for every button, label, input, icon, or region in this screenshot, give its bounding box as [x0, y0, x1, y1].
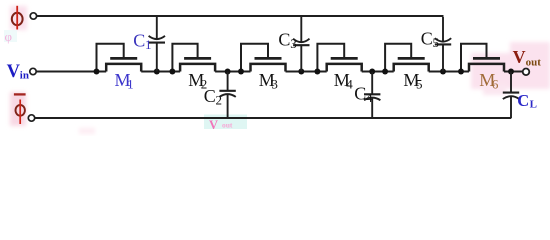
svg-text:L: L: [530, 99, 537, 111]
wire phi top rail: [37, 15, 444, 17]
junction node M2 drain: [169, 69, 175, 75]
svg-text:1: 1: [145, 37, 152, 52]
label C4: [354, 84, 373, 105]
svg-text:C: C: [204, 86, 216, 106]
transistor M4 (diode-connected NMOS): [317, 44, 361, 72]
terminal phi-bar: [28, 115, 34, 121]
svg-text:3: 3: [271, 76, 278, 91]
label M3: [259, 70, 278, 91]
label C1: [133, 30, 151, 51]
transistor M1 (diode-connected NMOS): [97, 44, 142, 72]
junction node C1: [154, 69, 160, 75]
junction node M5 drain: [382, 69, 388, 75]
label M4: [334, 70, 354, 91]
label C5: [421, 28, 439, 49]
junction node C2: [225, 69, 231, 75]
junction node C5: [440, 69, 446, 75]
junction node M4 drain: [314, 69, 320, 75]
wire main rail M5 to M6: [429, 71, 469, 73]
transistor M5 (diode-connected NMOS): [385, 44, 429, 72]
transistor M6 (diode-connected NMOS): [461, 44, 504, 72]
svg-text:C: C: [421, 28, 433, 48]
junction node M6 drain: [458, 69, 464, 75]
label Vout: [513, 47, 542, 69]
svg-text:5: 5: [433, 35, 440, 50]
wire main rail M4 to M5: [362, 71, 394, 73]
svg-text:4: 4: [366, 90, 373, 105]
svg-text:3: 3: [290, 36, 297, 51]
svg-text:C: C: [278, 30, 290, 50]
svg-text:V: V: [209, 118, 218, 132]
label C2: [204, 86, 222, 107]
ghost artifact Vout: [204, 115, 247, 132]
capacitor C2: [219, 72, 235, 119]
svg-text:V: V: [7, 62, 21, 82]
label M5: [403, 70, 422, 91]
svg-text:C: C: [133, 30, 145, 50]
svg-text:C: C: [517, 91, 529, 110]
svg-text:5: 5: [416, 76, 423, 91]
wire phi-bar bottom rail: [35, 117, 511, 119]
label Vin: [7, 62, 29, 82]
junction node M1 drain: [94, 69, 100, 75]
svg-text:in: in: [20, 69, 29, 81]
wire main rail M2 to M3: [215, 71, 250, 73]
svg-text:out: out: [526, 57, 542, 69]
junction node C3: [298, 69, 304, 75]
label CL: [517, 91, 537, 111]
svg-text:2: 2: [216, 92, 223, 107]
junction node M3 drain: [238, 69, 244, 75]
wire main rail Vin to M1: [36, 71, 106, 73]
wire main rail M3 to M4: [286, 71, 327, 73]
junction node C4: [369, 69, 375, 75]
clock phi-bar symbol: [14, 94, 26, 124]
capacitor CL: [503, 72, 519, 119]
capacitor C5: [435, 17, 451, 72]
terminal phi: [30, 13, 36, 19]
label M6: [479, 70, 499, 91]
svg-text:6: 6: [492, 76, 499, 91]
terminal Vin: [30, 68, 36, 74]
capacitor C3: [293, 17, 309, 72]
clock phi symbol: [12, 6, 23, 30]
svg-text:V: V: [513, 47, 526, 67]
label C3: [278, 30, 296, 51]
label M2: [188, 70, 207, 91]
capacitor C1: [149, 17, 165, 72]
svg-text:out: out: [222, 121, 233, 130]
terminal Vout: [523, 69, 530, 76]
capacitor C4: [364, 72, 380, 119]
transistor M2 (diode-connected NMOS): [172, 44, 215, 72]
svg-text:4: 4: [346, 76, 353, 91]
wire main rail M1 to M2: [141, 71, 180, 73]
ghost artifact phi: [4, 29, 17, 44]
svg-text:C: C: [354, 84, 366, 104]
junction node Vout/CL: [508, 69, 514, 75]
svg-text:φ: φ: [5, 29, 13, 44]
wire main rail M6 to Vout: [504, 71, 523, 73]
transistor M3 (diode-connected NMOS): [241, 44, 286, 72]
label M1: [115, 70, 134, 91]
svg-text:1: 1: [127, 76, 134, 91]
